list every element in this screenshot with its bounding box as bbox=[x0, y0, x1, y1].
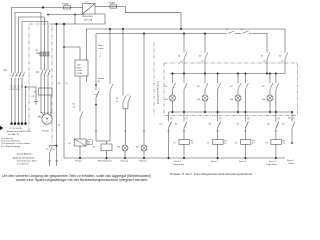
svg-text:Betrieb: Betrieb bbox=[140, 159, 148, 162]
svg-text:Kreis 3: Kreis 3 bbox=[239, 160, 247, 163]
lamp H1 Stoerung bbox=[122, 145, 128, 151]
svg-text:2.2: 2.2 bbox=[88, 143, 90, 145]
lamp panel bottom rail bbox=[169, 111, 293, 113]
kreis3 valve Y3 bbox=[244, 112, 246, 122]
coil K2 Betriebsbereit bbox=[101, 144, 112, 151]
svg-text:2.2: 2.2 bbox=[224, 143, 227, 145]
fuse block F2 3-pole bbox=[40, 52, 42, 56]
svg-text:(3): (3) bbox=[247, 118, 250, 120]
svg-text:(2): (2) bbox=[219, 118, 222, 120]
wire L1 elbow top-left bbox=[12, 8, 44, 124]
bottom rail 0V bbox=[64, 157, 285, 159]
svg-text:2.2: 2.2 bbox=[191, 143, 194, 145]
wire V phase drop 3 bbox=[47, 22, 49, 114]
lamp branch 2 bbox=[204, 74, 206, 84]
relay box second pin bbox=[85, 76, 87, 82]
step link bbox=[123, 108, 128, 110]
svg-text:40: 40 bbox=[199, 56, 201, 58]
wire S1 branch bbox=[109, 29, 111, 84]
feed wire lamp4 with contact bbox=[266, 59, 268, 74]
svg-text:Kreis 2: Kreis 2 bbox=[211, 160, 219, 163]
svg-text:Kreis 1: Kreis 1 bbox=[174, 160, 182, 163]
svg-text:(3) = gewünscht i. an B. n.die: (3) = gewünscht i. an B. n.dienen bbox=[1, 142, 30, 145]
wire N tap to transformer primary bbox=[48, 14, 84, 16]
svg-text:schutz: schutz bbox=[98, 47, 104, 50]
svg-text:24V / 2A: 24V / 2A bbox=[84, 19, 93, 22]
door contact S3 bbox=[242, 31, 249, 34]
svg-text:230V-24V-0: 230V-24V-0 bbox=[82, 16, 94, 18]
wire drop to lamp H1 bbox=[125, 109, 127, 145]
wire F2 to rail R1 bbox=[117, 7, 182, 30]
svg-text:Notaus: Notaus bbox=[98, 77, 105, 80]
main switch Q1 bbox=[10, 73, 25, 79]
kreis1 valve Y1 bbox=[183, 112, 185, 122]
lamp branch 1 bbox=[172, 74, 174, 84]
contactor K1 main contacts bbox=[41, 70, 48, 75]
terminal squares bbox=[0, 123, 27, 131]
wire L3 elbow bbox=[19, 17, 45, 123]
svg-text:40: 40 bbox=[279, 56, 281, 58]
ground symbol bbox=[34, 102, 38, 105]
svg-text:Störung: Störung bbox=[121, 159, 129, 162]
fuse F1 bbox=[64, 6, 71, 9]
motor M1 bbox=[42, 114, 52, 124]
svg-text:F2(A6): F2(A6) bbox=[109, 2, 116, 5]
svg-text:2-10A: 2-10A bbox=[77, 72, 83, 75]
svg-text:(2) = unten Messwert: (2) = unten Messwert bbox=[1, 140, 20, 143]
svg-text:F1(A6): F1(A6) bbox=[62, 3, 69, 6]
svg-text:(1) = Wert 90: (1) = Wert 90 bbox=[1, 137, 14, 140]
svg-text:(5): (5) bbox=[293, 118, 296, 120]
kreis1a wire bbox=[168, 112, 170, 122]
wire NotAus branch bbox=[95, 34, 97, 91]
svg-text:2.2: 2.2 bbox=[283, 143, 286, 145]
wire step branch bbox=[127, 94, 129, 96]
wire ticks bbox=[167, 130, 277, 132]
lamp H2 Betrieb bbox=[143, 34, 145, 146]
svg-text:(4): (4) bbox=[278, 118, 281, 120]
wire N elbow bbox=[22, 22, 48, 124]
svg-text:Pumpe: Pumpe bbox=[42, 131, 50, 133]
svg-text:40: 40 bbox=[261, 56, 263, 58]
fuse F2 bbox=[110, 5, 117, 8]
lamp wire ticks bbox=[124, 130, 126, 132]
transformer T1 bbox=[82, 4, 95, 15]
svg-text:mit t.Abt. 90: mit t.Abt. 90 bbox=[8, 133, 20, 136]
svg-text:Einspeisung 3x400V 50Hz: Einspeisung 3x400V 50Hz bbox=[7, 131, 30, 133]
lamp panel top rail bbox=[170, 73, 285, 75]
svg-text:3: 3 bbox=[100, 56, 101, 58]
overload relay F3 bbox=[39, 88, 53, 95]
left margin marker bbox=[0, 126, 3, 130]
kreis5 option branch bbox=[291, 112, 293, 122]
svg-text:S3: S3 bbox=[241, 29, 243, 31]
wire L2 elbow bbox=[15, 13, 41, 124]
svg-text:Betriebsbereit: Betriebsbereit bbox=[98, 159, 112, 162]
svg-text:Kreis 4: Kreis 4 bbox=[269, 160, 277, 163]
svg-text:(4) = Signalausgänge: (4) = Signalausgänge bbox=[1, 146, 21, 148]
svg-text:Motor-: Motor- bbox=[77, 67, 83, 70]
kreis labels bbox=[160, 118, 296, 145]
feed wire kreis1 with contact bbox=[183, 34, 185, 53]
wire PE rail bbox=[25, 87, 27, 123]
rail R2 bbox=[96, 33, 227, 35]
kreis2 valve Y2 bbox=[217, 112, 219, 122]
contactor coil K1 bbox=[74, 139, 86, 146]
svg-text:Aggregat: Betriebsdaten: Aggregat: Betriebsdaten bbox=[13, 156, 35, 159]
cabinet border dash-dot bbox=[29, 24, 298, 143]
wire V1 0V drop bbox=[56, 24, 58, 166]
terminal tick V1 bbox=[55, 160, 58, 162]
svg-text:Hinweis: 5. bis n. Kreis Weges: Hinweis: 5. bis n. Kreis Wegestromventil… bbox=[170, 172, 252, 176]
svg-text:(2): (2) bbox=[186, 118, 189, 120]
svg-text:L1 L2 L3 N: L1 L2 L3 N bbox=[10, 89, 20, 91]
svg-text:1: 1 bbox=[100, 53, 101, 55]
lamp panel labels bbox=[165, 86, 267, 101]
wire PE tap to earth bbox=[26, 87, 37, 101]
svg-text:Antrieb Abgleich: Antrieb Abgleich bbox=[17, 153, 31, 156]
motor wire PE bbox=[50, 95, 52, 116]
left small note block bbox=[1, 133, 55, 165]
svg-text:schutz: schutz bbox=[77, 69, 83, 72]
wire V2 drop to relay box bbox=[63, 24, 65, 158]
svg-text:40: 40 bbox=[178, 56, 180, 58]
svg-text:Kreis 5: Kreis 5 bbox=[287, 159, 295, 162]
svg-text:Motor-: Motor- bbox=[98, 44, 104, 47]
svg-text:(0): (0) bbox=[58, 125, 61, 127]
motor terminal ticks bbox=[40, 111, 52, 113]
wire K1 coil branch bbox=[79, 76, 81, 112]
svg-text:(0): (0) bbox=[58, 83, 61, 85]
lamp branch 4 bbox=[269, 74, 271, 84]
panel border dash-dot bbox=[164, 63, 298, 116]
NotAus S0 contact bbox=[96, 91, 99, 98]
wire tap to aux contact bbox=[50, 146, 57, 147]
rail R1 24V bbox=[86, 29, 285, 60]
svg-text:Bedienpult / HSKTB 1-4: Bedienpult / HSKTB 1-4 bbox=[157, 80, 160, 104]
aux contact Q1.21 bbox=[50, 147, 53, 153]
wire V phase drop 2 bbox=[44, 17, 46, 114]
contact K1 coil feed bbox=[80, 112, 83, 119]
svg-text:S2: S2 bbox=[226, 29, 228, 31]
terminal tick aux bbox=[48, 160, 51, 162]
wire K1 aux branch bbox=[122, 29, 124, 96]
feed wire right with contact bbox=[284, 59, 286, 74]
door contact S2 bbox=[228, 31, 235, 34]
feed wire lamp2 with contact bbox=[204, 34, 206, 53]
location boundary dash-dot bbox=[153, 42, 155, 116]
svg-text:aus (TÜV, S): aus (TÜV, S) bbox=[17, 163, 29, 166]
svg-text:2.2: 2.2 bbox=[252, 143, 255, 145]
svg-text:Option: Option bbox=[288, 162, 295, 165]
wire transformer to fuse F2 bbox=[95, 6, 110, 8]
wire F1 to transformer bbox=[71, 7, 83, 9]
bottom labels bbox=[75, 159, 295, 166]
wire drop coil K2 bbox=[106, 141, 108, 144]
secondary frame left bbox=[74, 15, 76, 25]
svg-text:(2T): (2T) bbox=[170, 118, 174, 120]
terminal cross marks under Q1 bbox=[11, 86, 23, 88]
svg-text:21: 21 bbox=[46, 149, 48, 151]
svg-text:Pumpe: Pumpe bbox=[75, 160, 83, 162]
contact K1b bbox=[128, 96, 131, 103]
svg-text:Liege unten: Liege unten bbox=[173, 163, 185, 166]
switch gaps bbox=[12, 73, 23, 78]
svg-text:Liege oben: Liege oben bbox=[266, 164, 278, 166]
lamp branch 3 bbox=[237, 74, 239, 84]
wire V phase drop 1 bbox=[40, 13, 42, 113]
contact K1 13/14 bbox=[123, 96, 126, 103]
motor protection relay box U1 bbox=[75, 60, 88, 76]
kreis4 valve Y4 bbox=[275, 112, 277, 122]
svg-text:L1 L2 L3 N PE: L1 L2 L3 N PE bbox=[9, 128, 23, 130]
svg-text:Freischaltung n. Wahl: Freischaltung n. Wahl bbox=[17, 159, 37, 162]
wire L1 to fuse F1 bbox=[43, 7, 64, 9]
wire tap to relay box bbox=[64, 47, 80, 60]
kreis wire contacts inside panel bbox=[184, 74, 279, 113]
svg-text:sowie eine Spannungsabfrage mi: sowie eine Spannungsabfrage mit der Bear… bbox=[16, 178, 148, 182]
wire secondary bottom rail bbox=[52, 14, 105, 24]
